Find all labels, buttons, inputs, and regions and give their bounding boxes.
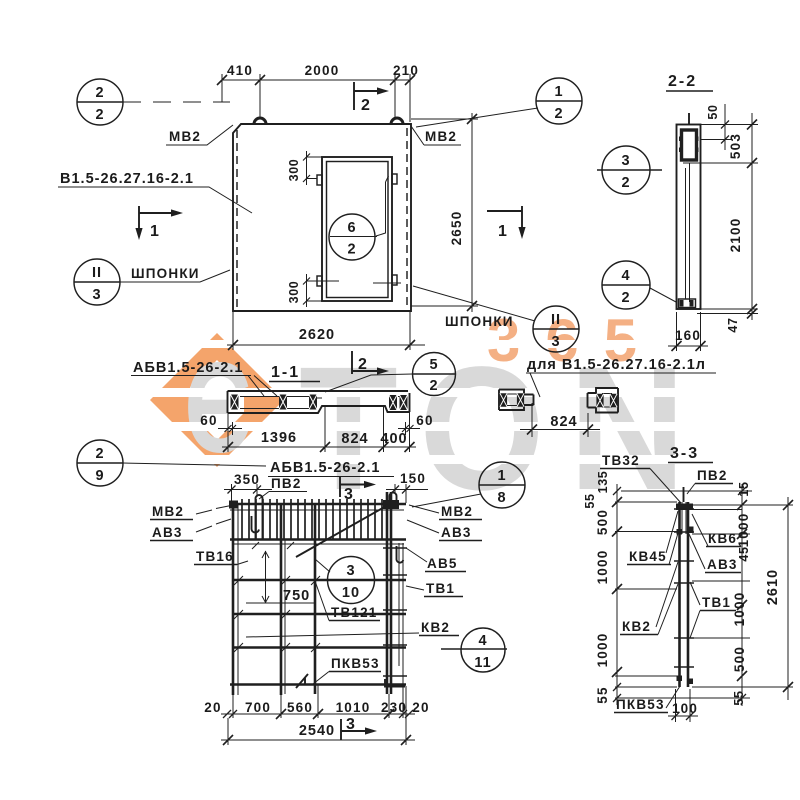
svg-text:МВ2: МВ2 bbox=[152, 504, 184, 519]
svg-text:ШПОНКИ: ШПОНКИ bbox=[445, 314, 514, 329]
dim 300 top of opening bbox=[287, 151, 322, 185]
label shponki right bbox=[445, 314, 514, 329]
cage right column crossbars bbox=[383, 548, 407, 676]
dim 60 right bbox=[398, 413, 434, 435]
svg-text:10: 10 bbox=[342, 585, 360, 601]
svg-text:750: 750 bbox=[283, 588, 310, 604]
svg-text:2: 2 bbox=[621, 175, 630, 191]
callout circle II/3 left bbox=[74, 259, 230, 305]
hook PKV53 bottom bbox=[296, 674, 330, 688]
svg-text:9: 9 bbox=[95, 468, 104, 484]
svg-text:1000: 1000 bbox=[732, 592, 747, 627]
svg-text:5: 5 bbox=[429, 357, 438, 373]
section mark 1 left bbox=[135, 206, 183, 240]
svg-text:500: 500 bbox=[595, 509, 610, 535]
panel left keyway dashed edge bbox=[236, 130, 238, 307]
svg-text:АВ5: АВ5 bbox=[427, 556, 458, 571]
top dimension chain 410 2000 210 bbox=[217, 63, 419, 122]
svg-text:2: 2 bbox=[358, 356, 369, 373]
svg-text:55: 55 bbox=[732, 690, 746, 705]
cage vertical bars bbox=[233, 492, 403, 695]
svg-text:8: 8 bbox=[497, 490, 506, 506]
label KV45 bbox=[627, 511, 678, 565]
label TV32 bbox=[600, 453, 681, 503]
title V1.5-26.27.16-2.1 bbox=[58, 171, 252, 213]
cage splice marks bbox=[234, 542, 320, 652]
svg-text:2: 2 bbox=[621, 290, 630, 306]
door frame tab left bottom bbox=[317, 276, 322, 286]
cage corner weld right bbox=[383, 500, 399, 509]
label PV2 section bbox=[687, 468, 733, 494]
svg-text:КВ6: КВ6 bbox=[708, 531, 737, 546]
svg-text:350: 350 bbox=[234, 472, 260, 487]
svg-text:400: 400 bbox=[380, 431, 407, 447]
section mark 2 top bbox=[354, 82, 389, 114]
dim 60 left bbox=[200, 413, 242, 435]
3-3 right inner dim line bbox=[732, 481, 751, 706]
section mark 2 bottom bbox=[352, 351, 389, 375]
dim 2620 below panel bbox=[227, 311, 425, 350]
svg-text:КВ2: КВ2 bbox=[622, 619, 651, 634]
svg-text:410: 410 bbox=[227, 63, 253, 78]
svg-text:160: 160 bbox=[675, 328, 701, 343]
svg-text:500: 500 bbox=[732, 646, 747, 672]
callout circle 4/11 bbox=[441, 628, 507, 672]
svg-text:1: 1 bbox=[497, 468, 506, 484]
svg-text:55: 55 bbox=[595, 686, 610, 703]
svg-text:300: 300 bbox=[287, 159, 301, 182]
svg-text:АВ3: АВ3 bbox=[707, 557, 738, 572]
cage stirrups top band bbox=[242, 499, 382, 539]
svg-text:2: 2 bbox=[95, 85, 104, 101]
svg-text:ТВ1: ТВ1 bbox=[702, 595, 731, 610]
label KV2 cage bbox=[246, 620, 459, 637]
svg-text:МВ2: МВ2 bbox=[425, 129, 457, 144]
svg-text:3: 3 bbox=[551, 334, 560, 350]
svg-text:ТВ121: ТВ121 bbox=[331, 605, 378, 620]
section mark 3 top bbox=[340, 477, 376, 503]
1-1 rebar marks right channel bbox=[389, 395, 408, 410]
label MV2 top left bbox=[166, 125, 233, 145]
svg-text:2: 2 bbox=[554, 106, 563, 122]
svg-text:2: 2 bbox=[95, 446, 104, 462]
section 2-2 inner step lines bbox=[683, 163, 700, 302]
label PV2 bbox=[259, 476, 307, 499]
svg-text:2100: 2100 bbox=[728, 218, 743, 253]
label KV2 section bbox=[620, 562, 678, 635]
circle 6/2 bbox=[329, 214, 377, 260]
svg-text:1: 1 bbox=[554, 84, 563, 100]
cage corner weld left bbox=[229, 501, 238, 509]
1-1 rebar marks left channel bbox=[231, 395, 318, 410]
label shponki left bbox=[131, 266, 200, 281]
svg-text:для В1.5-26.27.16-2.1л: для В1.5-26.27.16-2.1л bbox=[527, 357, 706, 373]
svg-text:20: 20 bbox=[204, 700, 221, 715]
svg-text:3: 3 bbox=[346, 563, 355, 579]
svg-text:ТВ32: ТВ32 bbox=[602, 453, 640, 468]
svg-text:100: 100 bbox=[672, 701, 698, 716]
label TV1 cage bbox=[406, 581, 463, 597]
title 2-2 bbox=[666, 73, 713, 91]
svg-text:2: 2 bbox=[361, 97, 372, 114]
3-3 crossbars bbox=[674, 509, 694, 667]
svg-text:3: 3 bbox=[621, 153, 630, 169]
svg-text:1396: 1396 bbox=[261, 430, 297, 446]
svg-text:1-1: 1-1 bbox=[271, 364, 300, 381]
svg-text:55: 55 bbox=[583, 493, 597, 508]
svg-text:ПКВ53: ПКВ53 bbox=[331, 656, 380, 671]
dim 750 bbox=[262, 551, 310, 604]
svg-text:2000: 2000 bbox=[305, 63, 340, 78]
section 2-2 lifting loop stub bbox=[688, 113, 690, 125]
dim column 503 2100 47 section 2-2 bbox=[697, 113, 758, 333]
svg-text:ТВ16: ТВ16 bbox=[196, 549, 234, 564]
dim 50 section 2-2 bbox=[701, 104, 731, 150]
svg-text:2: 2 bbox=[429, 378, 438, 394]
svg-text:20: 20 bbox=[412, 700, 429, 715]
callout circle 2/9 bbox=[77, 440, 266, 486]
824 pair right channel bbox=[588, 388, 619, 413]
svg-text:ПКВ53: ПКВ53 bbox=[616, 697, 665, 712]
svg-text:300: 300 bbox=[287, 281, 301, 304]
svg-text:60: 60 bbox=[200, 413, 217, 428]
svg-text:2610: 2610 bbox=[765, 569, 781, 605]
door leaf line bbox=[376, 176, 389, 236]
callout circle 1/2 bbox=[416, 78, 582, 127]
svg-text:4: 4 bbox=[621, 268, 630, 284]
svg-text:560: 560 bbox=[287, 700, 313, 715]
hook J right bbox=[397, 546, 404, 563]
title ABV1.5-26-2.1 bbox=[131, 360, 277, 396]
label AV3 cage left bbox=[150, 519, 231, 541]
svg-text:КВ45: КВ45 bbox=[629, 549, 667, 564]
title dlya V1.5-26.27.16-2.1l bbox=[526, 357, 716, 397]
svg-text:3: 3 bbox=[92, 287, 101, 303]
dim 350 bbox=[224, 472, 272, 503]
panel right keyway dashed edge bbox=[406, 128, 408, 307]
label AV3 section bbox=[689, 534, 741, 573]
callout circle II/3 right bbox=[413, 286, 579, 352]
svg-text:15: 15 bbox=[737, 481, 751, 496]
callout circle 4/2 bbox=[602, 261, 676, 309]
label PKV53 section bbox=[614, 686, 680, 713]
label MV2 cage left bbox=[150, 504, 231, 520]
dim 300 bottom of opening bbox=[287, 274, 401, 307]
svg-text:3: 3 bbox=[346, 716, 357, 733]
svg-text:824: 824 bbox=[341, 431, 368, 447]
3-3 left dim line bbox=[583, 471, 622, 705]
svg-text:6: 6 bbox=[347, 220, 356, 236]
svg-text:1: 1 bbox=[498, 223, 509, 240]
label AV3 cage right bbox=[407, 520, 482, 541]
cage total dim 2540 bbox=[221, 686, 415, 745]
svg-text:150: 150 bbox=[400, 471, 426, 486]
svg-text:2: 2 bbox=[95, 107, 104, 123]
svg-text:II: II bbox=[92, 265, 102, 281]
dim 160 section 2-2 bbox=[668, 312, 708, 351]
watermark 365 bbox=[487, 307, 662, 374]
panel outline bbox=[233, 124, 411, 311]
title ABV1.5-26-2.1 cage bbox=[268, 460, 394, 477]
svg-text:1000: 1000 bbox=[595, 550, 610, 585]
dim 2650 right of panel bbox=[411, 113, 478, 312]
label PKV53 bbox=[313, 656, 381, 684]
svg-text:824: 824 bbox=[550, 414, 577, 430]
svg-text:МВ2: МВ2 bbox=[169, 129, 201, 144]
svg-text:1: 1 bbox=[150, 223, 161, 240]
watermark stripes bbox=[140, 340, 700, 464]
label TV1 section bbox=[690, 582, 736, 638]
title 1-1 bbox=[269, 364, 320, 382]
svg-text:ТВ1: ТВ1 bbox=[426, 581, 455, 596]
svg-text:60: 60 bbox=[416, 413, 433, 428]
svg-text:АБВ1.5-26-2.1: АБВ1.5-26-2.1 bbox=[133, 360, 243, 376]
dim 150 bbox=[386, 471, 428, 503]
callout circle 3/2 bbox=[597, 146, 662, 194]
svg-text:45: 45 bbox=[737, 546, 751, 561]
door frame tab right bottom bbox=[392, 275, 397, 285]
svg-text:230: 230 bbox=[381, 700, 407, 715]
3-3 far right dim 2610 bbox=[765, 497, 793, 700]
section mark 1 right bbox=[487, 206, 526, 240]
dim 824 pair bbox=[520, 403, 600, 437]
svg-text:2620: 2620 bbox=[299, 327, 335, 343]
3-3 weld plates bbox=[676, 504, 694, 685]
hook PV2 top right bbox=[390, 493, 397, 506]
svg-text:1000: 1000 bbox=[595, 633, 610, 668]
cage bottom dim chain bbox=[204, 684, 429, 719]
callout circle 5/2 bbox=[325, 353, 456, 396]
824 pair left channel bbox=[499, 390, 534, 411]
svg-text:2: 2 bbox=[347, 242, 356, 258]
svg-text:3-3: 3-3 bbox=[670, 445, 699, 462]
3-3 right extension lines bbox=[683, 491, 793, 698]
cage horizontal bars bbox=[230, 504, 406, 685]
svg-text:КВ2: КВ2 bbox=[421, 620, 450, 635]
section 2-2 bottom channel bbox=[679, 299, 696, 308]
watermark word TON bbox=[299, 330, 710, 527]
watermark logo diamond bbox=[150, 333, 284, 467]
svg-text:2-2: 2-2 bbox=[668, 73, 697, 90]
callout circle 2/2 bbox=[77, 79, 230, 125]
svg-text:В1.5-26.27.16-2.1: В1.5-26.27.16-2.1 bbox=[60, 171, 194, 187]
svg-text:210: 210 bbox=[393, 63, 419, 78]
svg-text:АВ3: АВ3 bbox=[152, 525, 183, 540]
svg-text:МВ2: МВ2 bbox=[441, 504, 473, 519]
label TV16 bbox=[194, 549, 248, 565]
section mark 3 bottom bbox=[341, 716, 377, 740]
door frame tab left top bbox=[317, 175, 322, 185]
callout circle 3/10 bbox=[315, 557, 375, 604]
dim chain 1396 824 400 bbox=[222, 406, 416, 452]
hook PV2 top left bbox=[256, 495, 263, 539]
svg-text:ШПОНКИ: ШПОНКИ bbox=[131, 266, 200, 281]
cage diagonal brace bbox=[296, 505, 388, 557]
svg-text:1010: 1010 bbox=[336, 700, 371, 715]
section 2-2 top channel box bbox=[679, 130, 699, 160]
svg-text:47: 47 bbox=[726, 317, 740, 332]
label TV121 bbox=[315, 581, 380, 621]
svg-text:700: 700 bbox=[245, 700, 271, 715]
svg-text:11: 11 bbox=[474, 655, 491, 671]
title 3-3 bbox=[668, 445, 713, 463]
watermark letter E in diamond bbox=[184, 336, 251, 479]
label AV5 bbox=[406, 548, 466, 572]
door opening inner frame bbox=[327, 162, 389, 298]
svg-text:503: 503 bbox=[728, 133, 743, 159]
hook bottom right bbox=[385, 679, 405, 687]
svg-text:50: 50 bbox=[706, 104, 720, 119]
svg-text:ПВ2: ПВ2 bbox=[271, 476, 302, 491]
svg-text:2650: 2650 bbox=[449, 211, 464, 246]
3-3 column bars bbox=[680, 487, 689, 687]
hook J left bbox=[252, 516, 260, 532]
section 2-2 body outline bbox=[677, 125, 701, 310]
svg-text:АБВ1.5-26-2.1: АБВ1.5-26-2.1 bbox=[270, 460, 380, 476]
svg-text:АВ3: АВ3 bbox=[441, 525, 472, 540]
lifting loop right bbox=[391, 118, 403, 124]
svg-text:2540: 2540 bbox=[299, 723, 335, 739]
svg-text:135: 135 bbox=[596, 471, 610, 494]
svg-text:4: 4 bbox=[478, 633, 487, 649]
1-1 bar profile bbox=[228, 391, 410, 413]
svg-text:ПВ2: ПВ2 bbox=[697, 468, 728, 483]
3-3 left extension lines bbox=[615, 491, 684, 698]
lifting loop left bbox=[254, 118, 266, 124]
door opening outer frame bbox=[322, 157, 392, 301]
label KV6 bbox=[692, 514, 741, 547]
door frame tab right top bbox=[392, 174, 397, 184]
svg-text:1000: 1000 bbox=[736, 513, 751, 548]
svg-text:II: II bbox=[551, 312, 561, 328]
callout circle 1/8 bbox=[412, 462, 525, 508]
label MV2 cage right bbox=[409, 504, 482, 520]
label MV2 top right bbox=[411, 126, 461, 145]
dim 100 section bbox=[668, 689, 698, 722]
